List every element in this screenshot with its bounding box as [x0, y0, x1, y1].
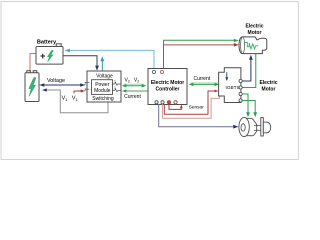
top motor icon M1	[239, 37, 267, 54]
svg-text:Voltage: Voltage	[96, 74, 113, 80]
controller bottom pin 4	[174, 101, 177, 104]
wire: battery to voltage module (black/navy)	[64, 56, 98, 67]
battery B1 lightning bolt	[47, 50, 53, 61]
controller bottom pin 3	[167, 101, 170, 104]
electric motor controller box	[148, 69, 187, 105]
sensor wire: red pin3 u-turn arrow into controller	[169, 104, 181, 110]
svg-text:Battery: Battery	[37, 39, 57, 45]
pin stubs left with labels 2	[85, 83, 90, 90]
wire: green IGBTS pin3 down to bottom motor	[242, 94, 248, 113]
svg-text:Electric: Electric	[259, 80, 277, 86]
svg-text:Switching: Switching	[92, 96, 114, 102]
wire: navy IGBTS pin1 up to top motor	[242, 59, 251, 82]
svg-text:2: 2	[84, 88, 86, 92]
IGBTS pin 3	[239, 92, 242, 95]
IGBTS pin 4	[239, 99, 242, 102]
bottom motor icon M2	[239, 117, 271, 136]
svg-text:Motor: Motor	[248, 30, 262, 36]
svg-text:Controller: Controller	[156, 87, 180, 93]
voltage power module box	[87, 71, 121, 102]
wire: red battery1 to battery2	[30, 54, 36, 71]
controller bottom pin 1	[155, 101, 158, 104]
inner box Power Module	[92, 80, 113, 95]
red wire controller to top motor	[164, 45, 236, 70]
green double arrow voltage module - controller (V2)	[124, 83, 145, 85]
pin squiggles right	[113, 82, 121, 92]
IGBTS pin 2	[239, 86, 242, 89]
sensor wire: red pin4 staircase to IGBTS	[164, 91, 216, 114]
controller top pin 2	[160, 70, 163, 73]
controller bottom pin 2	[161, 101, 164, 104]
controller top pin 1	[152, 70, 155, 73]
svg-text:2: 2	[84, 81, 86, 85]
svg-text:Module: Module	[94, 88, 111, 94]
svg-text:Current: Current	[193, 76, 210, 82]
wire: cyan up arrow from voltage module top	[101, 61, 103, 71]
IGBTS pin 1	[239, 79, 242, 82]
wire: cyan controller to battery	[67, 50, 154, 70]
svg-text:Sensor: Sensor	[189, 104, 205, 110]
green left arrow Current (controller to voltage module)	[125, 90, 148, 92]
svg-text:Current: Current	[124, 94, 141, 100]
svg-text:1: 1	[114, 79, 116, 83]
svg-text:+: +	[40, 51, 45, 61]
sensor wire: salmon pin2 to IGBTS	[162, 96, 219, 118]
navy double arrow battery2-voltage module	[39, 83, 85, 86]
border frame	[1, 2, 298, 160]
red mini arrow into voltage module left pin	[74, 91, 81, 94]
svg-text:Voltage: Voltage	[47, 78, 65, 84]
green wire controller to top motor	[164, 40, 236, 68]
sensor wire: navy long line to bottom motor	[159, 104, 233, 127]
svg-text:Electric Motor: Electric Motor	[151, 80, 184, 86]
svg-text:IGBTS: IGBTS	[226, 85, 240, 90]
green double arrow controller - IGBTS (Current)	[191, 82, 218, 84]
wire: green IGBTS pin4 down to bottom motor	[242, 101, 255, 113]
IGBTS box	[219, 68, 241, 103]
battery B2 lightning bolt	[29, 78, 36, 97]
wire: green IGBTS pin2 up to top motor	[242, 54, 256, 88]
battery B1	[36, 44, 63, 64]
navy arrow inside IGBTS	[226, 72, 228, 77]
svg-text:Motor: Motor	[262, 87, 276, 93]
svg-text:Electric: Electric	[245, 23, 263, 29]
battery B2	[25, 71, 39, 102]
navy loop: voltage module bottom to battery2	[46, 90, 108, 113]
svg-text:1: 1	[114, 86, 116, 90]
